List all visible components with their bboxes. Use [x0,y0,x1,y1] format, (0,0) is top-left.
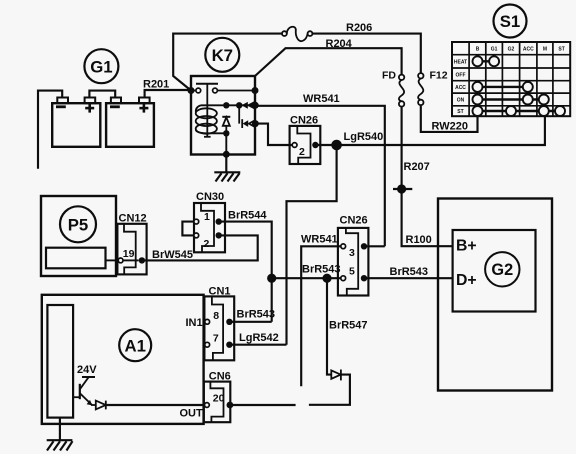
wire BrR543 main line to CN26 pin5 [272,277,341,279]
connector CN30 pins1-2 [194,203,225,252]
svg-text:BrR543: BrR543 [390,266,429,278]
fuse F12 [418,73,423,105]
svg-text:BrW545: BrW545 [152,249,193,261]
node relay pin to CN26 [252,120,259,127]
wire WR541 relay to CN26 pin3 drop [255,106,384,247]
svg-text:CN6: CN6 [209,370,231,382]
svg-text:A1: A1 [124,336,145,355]
wire LgR542 CN1 pin7 [229,344,286,346]
svg-text:B+: B+ [456,238,477,255]
svg-text:K7: K7 [212,46,233,65]
node relay pin right-top [252,87,259,94]
svg-text:R204: R204 [326,38,353,50]
svg-text:BrR547: BrR547 [329,320,368,332]
svg-text:CN1: CN1 [209,285,231,297]
svg-text:R100: R100 [406,234,432,246]
wire LgR540 branch to CN1 pin7 [287,145,337,345]
svg-text:ST: ST [558,47,564,53]
wire BrR547 with diode to open end [327,278,331,374]
svg-text:3: 3 [349,247,355,259]
svg-text:OUT: OUT [180,408,204,420]
svg-text:BrR543: BrR543 [302,264,341,276]
svg-text:CN12: CN12 [119,213,147,225]
svg-text:2: 2 [299,146,305,158]
svg-text:19: 19 [123,248,135,260]
fusible link [282,27,312,41]
S1 table header labels [476,47,565,53]
ground relay [214,155,240,182]
diode relay suppression [222,117,230,134]
svg-text:IN1: IN1 [186,317,203,329]
wire LgR540 CN26 to S1 table [315,116,545,145]
connector CN6 pin20 [204,382,234,423]
svg-text:2: 2 [204,238,210,250]
wire R206 from relay left terminal to fusible link [173,34,282,91]
svg-text:S1: S1 [500,12,521,31]
svg-text:5: 5 [349,265,355,277]
connector CN26 pins3-5 [338,228,369,296]
switch S1 label circle [494,5,527,38]
S1 row HEAT contacts [473,56,500,66]
relay armature core line [204,84,211,137]
diode A1 output [91,401,106,410]
wire OUT open segment [230,404,296,406]
svg-text:F12: F12 [430,70,448,82]
relay coil L [196,105,217,133]
svg-text:HEAT: HEAT [454,59,467,65]
relay contact switch [191,84,255,93]
svg-text:CN26: CN26 [340,215,368,227]
wire coil to relay ground pin [225,133,227,154]
node relay ground pin [223,151,230,158]
svg-text:G2: G2 [508,47,515,53]
G2 label circle [485,252,519,286]
svg-text:LgR540: LgR540 [344,131,384,143]
svg-text:RW220: RW220 [432,121,468,133]
battery G1a [52,98,100,147]
svg-text:CN30: CN30 [196,191,224,203]
S1 row ON contacts [473,95,549,105]
relay K7 label circle [205,38,239,72]
wire R206 to F12 [312,34,420,74]
wire OUT to CN6 pin20 [106,404,205,406]
wire R201 battery to relay K7 [145,90,191,98]
wire CN30 jumper link [182,222,194,236]
svg-text:FD: FD [382,70,396,82]
wire RW220 F12 to S1 table [421,106,478,132]
diode BrR547 [331,370,341,381]
wire relay coil bottom rail [209,132,226,134]
svg-text:M: M [543,47,547,53]
transistor Q internal [73,377,95,405]
svg-text:G1: G1 [90,58,112,77]
relay terminal arrows row A [242,102,255,109]
svg-text:ACC: ACC [455,85,466,91]
svg-text:OFF: OFF [456,72,466,78]
svg-text:WR541: WR541 [301,234,338,246]
wire battery series link [89,91,115,98]
battery G1 label circle [84,49,118,83]
svg-text:CN26: CN26 [290,115,318,127]
svg-text:WR541: WR541 [303,93,340,105]
svg-text:7: 7 [213,333,219,345]
wire relay rowB to CN26 pin2 [255,124,292,145]
relay K7 box [191,76,255,155]
S1 row ST contacts [473,106,566,116]
S1 row ACC contacts [473,82,533,92]
connector CN12 pin19 [117,224,146,275]
component P5 box [41,196,116,276]
node coil-diode top [223,102,229,108]
wire BrW545 CN12 to CN30 pin2 [142,235,258,260]
svg-text:ACC: ACC [523,47,534,53]
generator G2 inner box [453,230,536,312]
relay terminal arrows row B [242,119,254,128]
node BrR547 junction 2 [322,274,331,283]
svg-text:D+: D+ [456,272,477,289]
svg-text:P5: P5 [68,216,89,235]
ground A1 [47,418,73,451]
svg-text:R206: R206 [346,22,372,34]
wire CN26 pin3 to WR541 drop [364,245,385,247]
battery G1b [106,98,154,147]
svg-text:1: 1 [204,211,210,223]
svg-text:G1: G1 [491,47,498,53]
svg-text:B: B [476,47,480,53]
wire BrR543 CN1 pin8 up to junction [229,321,271,323]
node coil-diode bottom [223,130,229,136]
node relay pin WR541 [252,102,259,109]
node R207 splice [393,184,412,193]
svg-text:ON: ON [457,98,465,104]
svg-text:ST: ST [457,109,463,115]
switch S1 contact table [452,42,570,116]
wire P5 to CN12 [106,259,119,261]
svg-text:20: 20 [213,393,225,405]
component A1 box [42,295,204,424]
node BrR543 junction 1 [267,274,276,283]
svg-text:LgR542: LgR542 [239,332,279,344]
connector CN26 pin2 [290,126,321,164]
S1 table row labels [454,59,467,115]
wire BrR544 CN30 pin1 down to BrR543 node [219,222,272,322]
svg-text:BrR543: BrR543 [237,308,276,320]
svg-text:24V: 24V [77,364,97,376]
node relay pin left (R201 terminal) [188,87,195,94]
node LgR540 junction [331,140,342,151]
svg-text:R207: R207 [404,161,430,173]
fuse FD [399,75,404,107]
node rail branch [236,102,242,108]
wire FD down R207 to R100 B+ [402,107,453,247]
svg-text:BrR544: BrR544 [228,210,267,222]
wire relay coil top rail [201,104,255,106]
svg-text:G2: G2 [491,261,513,279]
svg-text:8: 8 [213,310,219,322]
wire battery negative lead (open end left) [38,91,62,169]
wire WR541 CN26 pin3 to open end [301,246,341,386]
connector CN1 pins8-7 [204,296,235,360]
wire rail to row B [238,105,240,123]
wire R204 relay to FD [255,48,402,76]
generator G2 outer box [438,199,552,391]
svg-text:R201: R201 [143,79,169,91]
wire BrR543 CN26 pin5 to G2 D+ [364,277,453,279]
